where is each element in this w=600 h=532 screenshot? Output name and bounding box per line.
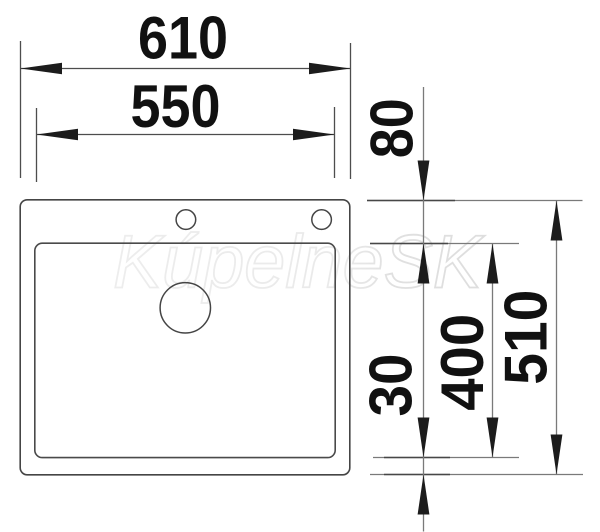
dimension 610 extension line left [20, 41, 22, 178]
dimension 550 extension line right [334, 107, 336, 178]
extension line basin top right [370, 243, 519, 245]
dimension 30 label [357, 354, 424, 417]
svg-text:30: 30 [357, 354, 424, 417]
dimension 510 vertical line [556, 201, 558, 475]
tap hole right [312, 210, 332, 230]
dimension 80-30 shared vertical line [423, 87, 425, 532]
dimension 80 arrow top [418, 161, 430, 201]
dimension 80 arrow bottom [418, 244, 430, 284]
svg-text:510: 510 [493, 290, 560, 385]
extension line sink bottom right [370, 474, 583, 476]
extension line sink top right [367, 200, 583, 202]
dimension 510 arrow top [551, 201, 563, 241]
dimension 610 label [138, 5, 228, 72]
dimension 400 arrow bottom [487, 418, 499, 458]
svg-text:610: 610 [138, 5, 228, 72]
watermark KupelneSK [113, 220, 485, 304]
svg-text:KúpelneSK: KúpelneSK [113, 220, 485, 304]
dimension 400 arrow top [487, 244, 499, 284]
tap hole left [176, 210, 196, 230]
dimension 510 arrow bottom [551, 435, 563, 475]
dimension 550 arrow left [37, 129, 79, 141]
dimension 550 label [131, 73, 221, 140]
svg-text:550: 550 [131, 73, 221, 140]
svg-text:400: 400 [429, 314, 496, 411]
dimension 510 label [493, 290, 560, 385]
extension line basin bottom right [373, 457, 519, 459]
dimension 80 label [359, 98, 426, 158]
dimension 550 extension line left [36, 108, 38, 182]
sink outer outline [20, 200, 350, 475]
dimension 400 label [429, 314, 496, 411]
dimension 610 arrow right [309, 63, 351, 75]
dimension 400 vertical line [492, 244, 494, 458]
dimension 610 extension line right [350, 43, 352, 179]
dimension 610 arrow left [21, 63, 63, 75]
dimension 550 arrow right [293, 129, 335, 141]
drain hole [160, 283, 210, 333]
dimension 610 line [21, 68, 351, 70]
svg-text:80: 80 [359, 98, 426, 158]
dimension 550 line [37, 134, 335, 136]
dimension 30 arrow top [418, 418, 430, 458]
sink basin inner outline [35, 243, 335, 457]
dimension 30 arrow bottom [418, 475, 430, 515]
